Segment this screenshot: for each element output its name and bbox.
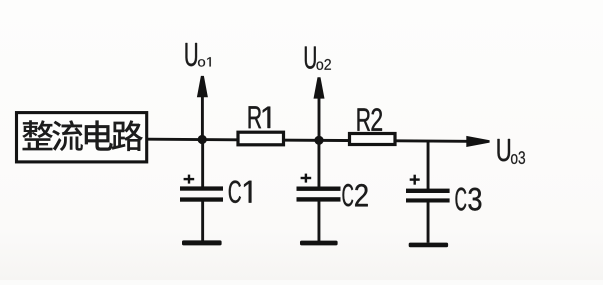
- wire: U_o1 arrow stem: [201, 97, 204, 140]
- label U_o2: [305, 46, 331, 69]
- node B junction dot (U_o2 / C2 tap): [314, 136, 323, 145]
- wire: [201, 202, 204, 242]
- node U_o2 arrowhead: [314, 77, 325, 98]
- ground (C1): [182, 240, 222, 245]
- label U_o1: [186, 43, 211, 67]
- capacitor C3 (polarized): [406, 141, 450, 243]
- wire: [427, 141, 430, 190]
- wire: main horizontal output bus from rectifier to U_o3 arrow: [148, 139, 467, 141]
- label C2: [342, 184, 367, 207]
- wire: [318, 202, 321, 242]
- wire: U_o2 arrow stem: [318, 97, 321, 141]
- plate: [406, 198, 450, 202]
- C3 polarity plus: [410, 175, 420, 185]
- ground (C2): [300, 241, 338, 246]
- C2 polarity plus: [301, 174, 312, 183]
- resistor R1: [238, 132, 284, 145]
- label C1: [229, 180, 252, 203]
- rectifier block 整流电路: [17, 113, 147, 162]
- resistor R2: [350, 134, 396, 145]
- node A junction dot (U_o1 / C1 tap): [198, 135, 207, 144]
- node U_o3 output arrowhead: [466, 136, 489, 147]
- ground (C3): [409, 243, 448, 248]
- capacitor C1 (polarized): [180, 139, 223, 241]
- wire: [318, 140, 321, 187]
- C1 polarity plus: [184, 175, 195, 184]
- capacitor C2 (polarized): [297, 140, 341, 241]
- label R2: [357, 108, 381, 131]
- label C3: [455, 188, 481, 211]
- plate: [406, 189, 450, 193]
- node U_o1 arrowhead: [197, 76, 208, 97]
- plate: [180, 186, 223, 190]
- label U_o3: [497, 139, 525, 164]
- plate: [180, 197, 223, 201]
- plate: [297, 187, 341, 191]
- label R1: [249, 106, 271, 128]
- wire: [201, 139, 204, 187]
- wire: [427, 202, 430, 243]
- plate: [297, 197, 341, 201]
